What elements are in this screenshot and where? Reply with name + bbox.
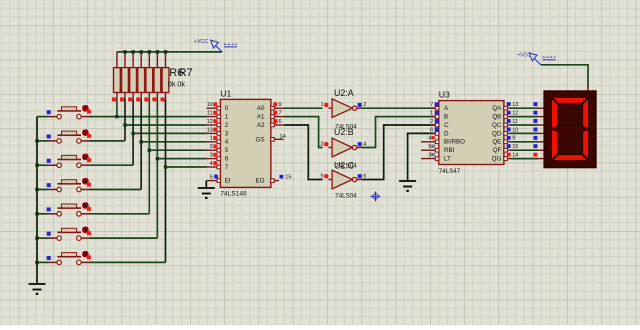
svg-text:5: 5 — [320, 173, 323, 179]
svg-text:C: C — [444, 122, 449, 129]
svg-text:10: 10 — [207, 102, 213, 108]
svg-text:1: 1 — [320, 102, 323, 108]
svg-text:4: 4 — [225, 139, 229, 146]
svg-text:7: 7 — [279, 111, 282, 117]
svg-text:4: 4 — [428, 136, 431, 142]
svg-text:11: 11 — [512, 119, 518, 125]
svg-text:0: 0 — [225, 105, 229, 112]
svg-text:6: 6 — [363, 173, 366, 179]
svg-text:3: 3 — [225, 130, 229, 137]
svg-text:10: 10 — [512, 127, 518, 133]
svg-text:9: 9 — [512, 136, 515, 142]
svg-text:0k: 0k — [177, 79, 185, 88]
svg-text:13: 13 — [207, 127, 213, 133]
svg-text:5: 5 — [210, 175, 213, 181]
svg-text:D: D — [444, 130, 449, 137]
svg-text:74LS148: 74LS148 — [220, 190, 247, 197]
svg-text:U3: U3 — [439, 90, 450, 100]
svg-text:13: 13 — [512, 102, 518, 108]
svg-text:4: 4 — [363, 141, 366, 147]
svg-text:3: 3 — [428, 152, 431, 158]
svg-text:GS: GS — [256, 136, 265, 143]
svg-text:1: 1 — [210, 136, 213, 142]
svg-text:R7: R7 — [179, 67, 193, 79]
svg-text:B: B — [444, 114, 448, 121]
svg-text:BI/RBO: BI/RBO — [444, 139, 465, 146]
svg-text:15: 15 — [285, 175, 291, 181]
svg-text:RBI: RBI — [444, 147, 455, 154]
svg-text:EI: EI — [225, 178, 231, 185]
svg-text:12: 12 — [512, 111, 518, 117]
svg-text:QA: QA — [492, 105, 502, 112]
svg-text:QF: QF — [493, 147, 502, 154]
svg-text:11: 11 — [207, 111, 213, 117]
svg-text:U2:C: U2:C — [334, 161, 355, 171]
svg-text:7: 7 — [225, 164, 229, 171]
svg-text:QB: QB — [492, 114, 501, 121]
svg-text:1: 1 — [430, 111, 433, 117]
svg-text:A1: A1 — [257, 114, 265, 121]
svg-text:5: 5 — [428, 144, 431, 150]
svg-text:A0: A0 — [257, 105, 265, 112]
svg-text:9: 9 — [279, 102, 282, 108]
svg-text:EO: EO — [256, 178, 265, 185]
svg-text:12: 12 — [207, 119, 213, 125]
svg-text:U1: U1 — [220, 89, 231, 99]
svg-text:QC: QC — [492, 122, 502, 129]
svg-text:A2: A2 — [257, 122, 265, 129]
svg-text:QG: QG — [492, 156, 502, 163]
svg-text:74LS47: 74LS47 — [439, 168, 461, 175]
svg-text:+VCC: +VCC — [517, 53, 531, 59]
svg-text:QD: QD — [492, 130, 502, 137]
svg-text:74LS04: 74LS04 — [335, 193, 357, 200]
svg-text:3: 3 — [320, 141, 323, 147]
svg-text:QE: QE — [492, 139, 501, 146]
svg-text:3: 3 — [210, 153, 213, 159]
svg-text:LT: LT — [444, 156, 451, 163]
svg-text:2: 2 — [210, 144, 213, 150]
svg-text:14: 14 — [280, 134, 286, 140]
svg-text:2: 2 — [363, 102, 366, 108]
svg-text:6: 6 — [430, 127, 433, 133]
svg-text:14: 14 — [512, 153, 518, 159]
svg-text:U2:A: U2:A — [334, 88, 354, 98]
svg-text:2: 2 — [225, 122, 229, 129]
svg-text:15: 15 — [512, 144, 518, 150]
svg-text:5: 5 — [225, 147, 229, 154]
svg-text:0k: 0k — [168, 79, 176, 88]
svg-text:4: 4 — [210, 161, 213, 167]
svg-text:7: 7 — [430, 102, 433, 108]
svg-text:6: 6 — [225, 156, 229, 163]
svg-text:1: 1 — [225, 114, 229, 121]
svg-text:U2:B: U2:B — [334, 127, 354, 137]
svg-text:+VCC: +VCC — [194, 39, 209, 45]
svg-text:2: 2 — [430, 119, 433, 125]
svg-text:6: 6 — [279, 119, 282, 125]
